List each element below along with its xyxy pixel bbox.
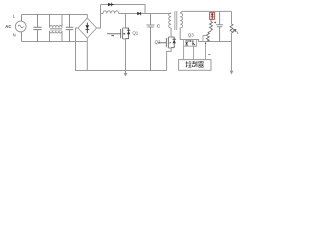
inductor L1 (103, 11, 119, 14)
boost diode D2 (137, 12, 141, 15)
controller box (179, 60, 211, 71)
wire main boost line (101, 13, 104, 15)
svg-text:AC: AC (5, 24, 11, 29)
label + polarity (214, 21, 216, 23)
resistor R2 (206, 31, 211, 42)
ground rail (primary) (75, 70, 167, 72)
wire feedback to controller (205, 42, 207, 60)
optocoupler Q3 (184, 40, 197, 47)
svg-text:C: C (157, 24, 161, 30)
wire output ground drop (231, 42, 233, 71)
MOSFET Q2 (158, 28, 176, 71)
bypass diode D1 (108, 3, 114, 6)
capacitor CX2 (66, 15, 73, 42)
wire opto pins to controller (184, 46, 194, 59)
wire bottom AC line (N) (22, 41, 88, 43)
resistor RL (230, 11, 233, 41)
ground arrow (secondary) (230, 71, 234, 75)
wire secondary bottom/return (180, 28, 231, 42)
bridge rectifier BR1 (78, 18, 97, 38)
common-mode choke LF1 (50, 15, 63, 42)
label G1 tick (111, 35, 114, 37)
wire top AC line (L) (22, 15, 88, 19)
capacitor C bulk (147, 14, 155, 71)
svg-text:N: N (13, 33, 16, 38)
ground arrow (primary) (124, 71, 128, 77)
svg-text:Q2: Q2 (155, 39, 161, 44)
wire bypass path (101, 5, 146, 14)
svg-text:L: L (13, 13, 16, 18)
label tick near controller (208, 54, 210, 56)
label 控制器 (drawn strokes) (186, 61, 204, 67)
svg-text:L: L (237, 30, 239, 34)
wire secondary top (180, 11, 231, 13)
AC source V1 (15, 15, 26, 42)
wire after inductor (119, 13, 172, 15)
resistor R1 (210, 19, 213, 31)
transformer T1 (169, 11, 183, 30)
svg-text:Q3: Q3 (188, 33, 194, 38)
MOSFET Q1 (107, 14, 130, 71)
svg-text:Q1: Q1 (132, 31, 138, 36)
capacitor C2 (output) (216, 11, 223, 41)
wire bridge DC- down to ground rail (76, 28, 79, 71)
wire bridge bottom corner to N line and ground rail (86, 38, 88, 71)
diode D3 (red highlighted) (210, 12, 215, 19)
wire bridge DC+ riser (97, 5, 101, 29)
wire divider tap (203, 36, 207, 42)
capacitor CX1 (33, 15, 41, 42)
